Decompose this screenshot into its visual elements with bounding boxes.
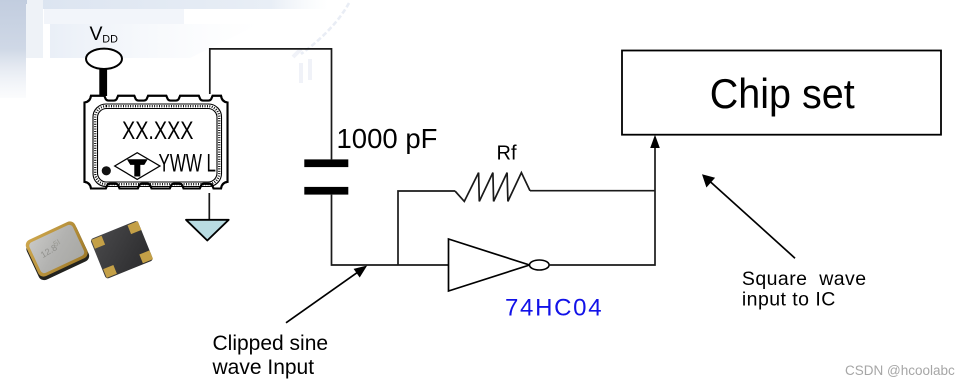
logo diamond with T (115, 153, 160, 180)
svg-text:Rf: Rf (497, 143, 517, 165)
photo: metal-lid crystal package (23, 219, 91, 282)
resistor Rf (455, 173, 530, 202)
pin 1 dot (102, 166, 111, 175)
annotation arrow: square wave (702, 174, 795, 258)
Vdd power pin (ellipse) (86, 49, 122, 69)
arrowhead into chip set (650, 135, 660, 148)
svg-text:V: V (90, 23, 103, 45)
wire: oscillator output to capacitor (210, 49, 332, 159)
inverter U2 (74HC04) (449, 239, 550, 291)
wire: feedback tap up to resistor (398, 191, 455, 265)
annotation arrow: clipped sine (286, 266, 367, 323)
svg-text:wave Input: wave Input (212, 356, 315, 379)
svg-text:74HC04: 74HC04 (505, 295, 603, 322)
svg-text:Chip set: Chip set (710, 70, 855, 117)
oscillator inner rope border (93, 104, 222, 187)
photo: black crystal package bottom (90, 220, 153, 279)
svg-text:input to IC: input to IC (742, 288, 836, 310)
svg-text:1000 pF: 1000 pF (337, 123, 438, 154)
wire: resistor to output node (530, 190, 655, 192)
svg-text:Clipped sine: Clipped sine (213, 332, 329, 355)
Vdd stub (thick bar into oscillator) (99, 68, 107, 96)
Vdd label (90, 23, 119, 45)
svg-text:YWW L: YWW L (159, 149, 217, 177)
svg-text:XX.XXX: XX.XXX (122, 117, 194, 145)
wire: inverter output to chip set (549, 147, 655, 265)
svg-text:DD: DD (102, 34, 118, 46)
svg-text:CSDN @hcoolabc: CSDN @hcoolabc (845, 363, 955, 378)
svg-text:Square wave: Square wave (742, 268, 867, 290)
chip set box (622, 51, 941, 135)
wire: oscillator to ground (208, 193, 210, 220)
capacitor C1 1000 pF (304, 159, 348, 194)
oscillator U1 package outline (85, 96, 228, 189)
wire: capacitor to input node (332, 195, 449, 265)
background washes (decorative) (0, 0, 349, 98)
ground (186, 220, 229, 241)
